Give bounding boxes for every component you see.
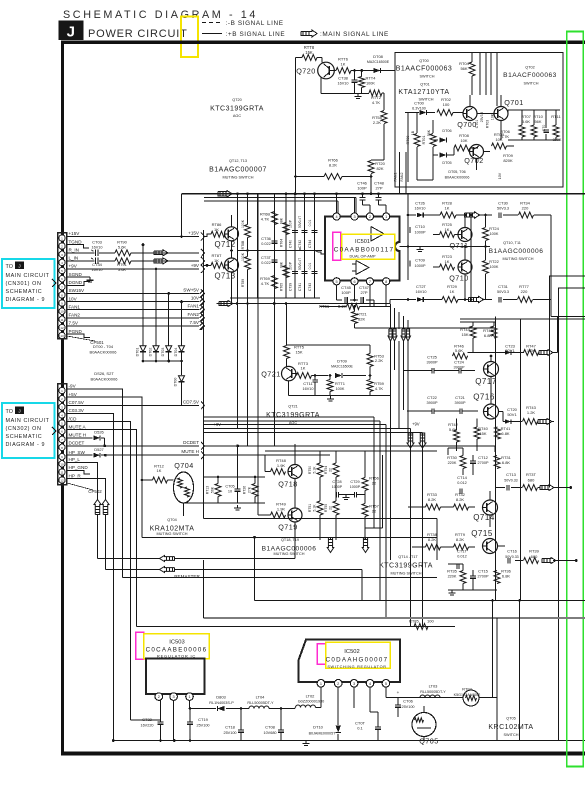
svg-text:D526: D526 (94, 430, 104, 435)
svg-text:CT39: CT39 (289, 283, 293, 291)
svg-text:3: 3 (353, 215, 355, 219)
svg-text:Q712: Q712 (214, 240, 235, 249)
svg-text:22: 22 (372, 509, 377, 514)
svg-text:Q713: Q713 (214, 272, 235, 281)
svg-text:FAN2: FAN2 (69, 313, 81, 318)
svg-text:SWITCH: SWITCH (524, 82, 539, 86)
svg-text:3900P: 3900P (455, 401, 466, 405)
svg-text:SWITCH: SWITCH (420, 75, 435, 79)
svg-text:J: J (18, 263, 20, 268)
svg-text:1K: 1K (445, 259, 450, 264)
svg-text:8.2K: 8.2K (428, 497, 437, 502)
svg-text:56K: 56K (534, 119, 541, 124)
svg-text:RT22: RT22 (489, 259, 499, 264)
svg-text:27P: 27P (375, 186, 382, 191)
svg-text:DUAL OP-AMP: DUAL OP-AMP (349, 255, 375, 259)
svg-text:KTC3199GRTA: KTC3199GRTA (379, 563, 433, 570)
svg-text:1K: 1K (445, 206, 450, 211)
svg-text:/CD: /CD (69, 416, 78, 421)
svg-text:REMASTER: REMASTER (174, 574, 200, 579)
svg-text:12: 12 (60, 479, 64, 483)
svg-text:SCHEMATIC: SCHEMATIC (6, 289, 43, 295)
svg-text:10V: 10V (498, 172, 502, 179)
svg-text:D803: D803 (216, 695, 226, 700)
svg-text:220: 220 (522, 206, 529, 211)
svg-text:25V3.3: 25V3.3 (480, 112, 484, 123)
svg-text:IC501: IC501 (355, 239, 370, 245)
svg-text:MUTE H: MUTE H (181, 449, 199, 454)
svg-text:RTT1: RTT1 (335, 381, 346, 386)
svg-text:1000P: 1000P (350, 485, 361, 489)
svg-text:10: 10 (60, 462, 64, 466)
svg-text:DIAGRAM - 9: DIAGRAM - 9 (6, 442, 46, 448)
svg-text:5.6K: 5.6K (118, 267, 127, 272)
svg-text:50V3.3: 50V3.3 (497, 207, 509, 211)
svg-text:C0AABB000117: C0AABB000117 (334, 247, 394, 254)
svg-text:100K: 100K (336, 387, 345, 391)
svg-text:8.2K: 8.2K (456, 497, 465, 502)
svg-text:11: 11 (60, 471, 63, 475)
svg-text:+9V: +9V (69, 264, 78, 269)
svg-text:100K: 100K (490, 265, 499, 269)
svg-text:CT43: CT43 (308, 283, 312, 291)
svg-text:Q702: Q702 (464, 156, 484, 165)
svg-text:0.022: 0.022 (261, 261, 271, 265)
svg-text:AGC: AGC (289, 421, 297, 425)
svg-text:0.012: 0.012 (457, 481, 467, 485)
svg-text:16V220: 16V220 (140, 724, 153, 728)
svg-text:3900P: 3900P (427, 401, 438, 405)
svg-text:1: 1 (188, 695, 190, 699)
svg-text:QT00: QT00 (419, 59, 429, 63)
svg-text:50V0.33: 50V0.33 (504, 479, 517, 483)
svg-text:680: 680 (528, 478, 535, 483)
svg-text:C0CAABE00006: C0CAABE00006 (146, 647, 208, 654)
svg-text:DCDET: DCDET (69, 441, 85, 446)
svg-text:CD7.5V: CD7.5V (183, 399, 200, 404)
svg-text:CT13: CT13 (506, 472, 517, 477)
svg-text:820K: 820K (503, 158, 513, 163)
svg-text:1000P: 1000P (415, 264, 426, 268)
svg-text:82K: 82K (358, 317, 365, 322)
svg-text:56K: 56K (211, 486, 215, 493)
svg-text:QT14 - T1T: QT14 - T1T (398, 555, 418, 559)
svg-text:CT44: CT44 (308, 240, 312, 248)
svg-text:C0DAAHG00007: C0DAAHG00007 (326, 657, 389, 664)
svg-text:+15V: +15V (188, 231, 200, 236)
svg-text:10K: 10K (491, 113, 495, 120)
svg-text:QT05: QT05 (506, 717, 516, 721)
svg-text:KTC3199GRTA: KTC3199GRTA (210, 106, 264, 113)
svg-text:100K: 100K (366, 82, 375, 86)
svg-text:FAN1: FAN1 (394, 173, 398, 182)
svg-text:1.2K: 1.2K (527, 410, 536, 415)
svg-text:CT25: CT25 (427, 355, 438, 360)
svg-text:MUTING SWITCH: MUTING SWITCH (502, 257, 533, 261)
svg-text:8: 8 (385, 280, 387, 284)
svg-text:6.3V100: 6.3V100 (412, 107, 426, 111)
svg-text:B0AACK00006: B0AACK00006 (445, 176, 470, 180)
svg-text:DT04: DT04 (174, 348, 178, 357)
svg-text:RT35: RT35 (447, 569, 457, 574)
svg-text:5: 5 (336, 280, 338, 284)
svg-text:4.7K: 4.7K (375, 386, 384, 391)
svg-text:Q701: Q701 (504, 98, 524, 107)
svg-text:IC502: IC502 (344, 649, 359, 655)
svg-text:0.1: 0.1 (357, 726, 363, 731)
svg-text:15K: 15K (461, 332, 468, 337)
svg-text:CT16: CT16 (507, 549, 518, 554)
svg-text:16V10: 16V10 (415, 207, 426, 211)
svg-text:CT1T: CT1T (457, 549, 468, 554)
svg-text:Q721: Q721 (261, 370, 281, 379)
svg-text:TO: TO (6, 264, 13, 270)
svg-text:Q705: Q705 (419, 737, 439, 746)
svg-text:7: 7 (369, 280, 371, 284)
svg-text:2: 2 (337, 682, 339, 686)
svg-text:R_IN: R_IN (69, 248, 79, 253)
svg-text:10K: 10K (460, 138, 467, 143)
svg-text:CT32: CT32 (142, 717, 153, 722)
svg-text:HP_SW: HP_SW (69, 450, 86, 455)
svg-text:7.5V: 7.5V (69, 321, 79, 326)
svg-text:RLL50005DT-Y: RLL50005DT-Y (247, 701, 274, 705)
svg-text:2: 2 (158, 695, 160, 699)
svg-text:J: J (67, 24, 76, 41)
svg-text:AGC: AGC (233, 114, 241, 118)
svg-text:1.9K: 1.9K (277, 463, 286, 468)
svg-text:Q704: Q704 (174, 461, 194, 470)
svg-text:6.8K: 6.8K (502, 460, 511, 465)
svg-text:2700P: 2700P (478, 461, 489, 465)
svg-text:15K: 15K (305, 50, 313, 55)
svg-text:J: J (18, 408, 20, 413)
svg-text:4.TK: 4.TK (261, 281, 270, 286)
svg-text:Q720: Q720 (296, 67, 316, 76)
svg-text:SWITCHING REGULATOR: SWITCHING REGULATOR (327, 665, 386, 669)
svg-text:10V: 10V (191, 296, 200, 301)
svg-text:16V10: 16V10 (416, 290, 427, 294)
svg-text:Q714: Q714 (473, 513, 495, 522)
svg-text:Q717: Q717 (475, 377, 497, 386)
svg-text:100K: 100K (241, 219, 245, 228)
svg-text:KRC102MTA: KRC102MTA (488, 724, 533, 731)
svg-text:4: 4 (369, 682, 371, 686)
svg-text:2.2K: 2.2K (375, 358, 384, 363)
svg-text:LT04: LT04 (256, 695, 266, 700)
svg-text:CT24: CT24 (454, 360, 465, 365)
svg-text:+9V: +9V (412, 422, 420, 427)
svg-text:CT21: CT21 (455, 395, 466, 400)
svg-text:CT29: CT29 (350, 480, 359, 484)
svg-text:MUTING SWITCH: MUTING SWITCH (390, 572, 421, 576)
svg-text:MA2C16500E: MA2C16500E (331, 365, 353, 369)
svg-text:RTT4: RTT4 (366, 76, 377, 81)
svg-text:8.2K: 8.2K (329, 163, 338, 168)
svg-text:DCDET: DCDET (183, 440, 199, 445)
svg-text:MUTING SWITCH: MUTING SWITCH (273, 552, 304, 556)
svg-text:RT26: RT26 (243, 486, 247, 495)
svg-text:27P: 27P (360, 290, 367, 295)
svg-text:10V: 10V (69, 296, 78, 301)
svg-text:B1AACF000063: B1AACF000063 (503, 72, 557, 79)
svg-text:1000P: 1000P (415, 231, 426, 235)
svg-text:CT11: CT11 (303, 381, 313, 386)
svg-text:100P: 100P (357, 186, 367, 191)
svg-text:CT26: CT26 (415, 201, 426, 206)
svg-text:DS26, S2T: DS26, S2T (94, 371, 114, 376)
svg-text:Q710: Q710 (449, 274, 469, 283)
svg-text:4: 4 (336, 215, 338, 219)
svg-text:CT19: CT19 (198, 717, 209, 722)
svg-text:POWER CIRCUIT: POWER CIRCUIT (88, 28, 188, 40)
svg-text:CT06: CT06 (403, 699, 414, 704)
svg-text:RL1N4003S-P: RL1N4003S-P (209, 701, 234, 705)
svg-text:1K: 1K (450, 289, 455, 294)
svg-text:Q700: Q700 (457, 120, 477, 129)
svg-text:RT50: RT50 (308, 466, 312, 474)
svg-text:RT54: RT54 (324, 466, 328, 474)
svg-text:CT30: CT30 (498, 201, 509, 206)
svg-text:RT55: RT55 (324, 504, 328, 512)
svg-text:2700P: 2700P (478, 575, 489, 579)
svg-text:MUTE A: MUTE A (69, 424, 87, 429)
svg-text:MA2C16500E: MA2C16500E (367, 60, 390, 64)
svg-text:1000P: 1000P (332, 485, 343, 489)
svg-text:SWITCH: SWITCH (504, 733, 519, 737)
svg-text:C03.3V: C03.3V (69, 408, 85, 413)
svg-text:0.012: 0.012 (457, 555, 467, 559)
svg-text:Q715: Q715 (471, 529, 493, 538)
svg-text:RT24: RT24 (489, 226, 499, 231)
svg-text:DT08: DT08 (373, 54, 384, 59)
svg-text:100P: 100P (289, 219, 293, 228)
svg-text:D527: D527 (94, 447, 104, 452)
svg-text:8.2K: 8.2K (428, 537, 437, 542)
svg-text:CT03: CT03 (92, 240, 103, 245)
svg-text:4.7K: 4.7K (372, 100, 381, 105)
svg-text:4.7K: 4.7K (501, 134, 510, 139)
svg-text:10V680: 10V680 (263, 731, 276, 735)
svg-text:CT22: CT22 (427, 395, 438, 400)
svg-text:SW15V: SW15V (69, 288, 86, 293)
svg-text:15K: 15K (295, 350, 302, 355)
svg-text:RT30: RT30 (447, 455, 457, 460)
svg-text:220K: 220K (448, 461, 457, 465)
svg-text:1: 1 (320, 682, 322, 686)
svg-text:DT05, T06: DT05, T06 (448, 170, 465, 174)
svg-text:(CN302) ON: (CN302) ON (6, 426, 42, 432)
svg-text:27K: 27K (248, 486, 252, 493)
svg-text:12: 12 (60, 326, 64, 330)
svg-text:RT89: RT89 (241, 279, 245, 287)
svg-text:RT3T: RT3T (526, 472, 536, 477)
svg-text:B1AAGC000006: B1AAGC000006 (489, 248, 544, 255)
svg-text:3: 3 (173, 695, 175, 699)
svg-text:13: 13 (60, 334, 64, 338)
svg-text:16V10: 16V10 (338, 82, 349, 86)
svg-text:L_IN: L_IN (69, 256, 79, 261)
svg-text:QT01: QT01 (420, 83, 430, 87)
svg-text:MAIN CIRCUIT: MAIN CIRCUIT (6, 273, 50, 279)
svg-text:SGND: SGND (69, 272, 83, 277)
svg-text:B1AAGC000007: B1AAGC000007 (209, 167, 267, 174)
svg-text:68K: 68K (280, 261, 284, 268)
svg-text:RT13: RT13 (206, 486, 210, 495)
svg-text:CT09: CT09 (415, 258, 426, 263)
svg-text:5: 5 (385, 682, 387, 686)
svg-text:50V0.33: 50V0.33 (505, 555, 518, 559)
svg-text:B1AACF000063: B1AACF000063 (396, 66, 453, 73)
svg-text:CT05: CT05 (225, 485, 234, 489)
svg-text:FAN2: FAN2 (400, 173, 404, 182)
svg-text:CT08: CT08 (265, 725, 276, 730)
svg-text:CT14: CT14 (457, 475, 468, 480)
svg-text:IC503: IC503 (169, 640, 184, 646)
svg-text:5.1K: 5.1K (313, 504, 317, 512)
svg-text:B0AACK00006: B0AACK00006 (90, 350, 118, 355)
svg-text:6.8K: 6.8K (502, 574, 511, 579)
svg-text:10: 10 (60, 310, 64, 314)
svg-text:CT31: CT31 (498, 284, 509, 289)
svg-text:QT12, T13: QT12, T13 (229, 159, 247, 163)
svg-text:CT28: CT28 (332, 480, 341, 484)
svg-text:DT06: DT06 (442, 129, 451, 133)
svg-text:MUTING SWITCH: MUTING SWITCH (222, 176, 253, 180)
svg-text:RT65: RT65 (280, 283, 284, 291)
svg-text:DT02: DT02 (149, 348, 153, 357)
svg-text:68K: 68K (280, 217, 284, 224)
svg-text:FAN1: FAN1 (69, 304, 81, 309)
svg-text:50V0.4T: 50V0.4T (298, 258, 302, 270)
svg-text:50V1: 50V1 (507, 412, 517, 417)
svg-text:1K: 1K (341, 62, 346, 67)
svg-text:DGND: DGND (69, 280, 83, 285)
svg-text:CT38: CT38 (338, 76, 349, 81)
svg-text:-9V: -9V (69, 384, 77, 389)
svg-text:CT01: CT01 (475, 120, 479, 129)
svg-text:HP_L: HP_L (69, 457, 81, 462)
svg-text:4.TK: 4.TK (261, 217, 270, 222)
svg-text:B0JAME00005T: B0JAME00005T (309, 731, 337, 735)
svg-text:82K: 82K (376, 166, 383, 171)
svg-text::-B SIGNAL LINE: :-B SIGNAL LINE (226, 20, 284, 27)
svg-text:25V100: 25V100 (196, 724, 209, 728)
svg-text:3900P: 3900P (427, 361, 438, 365)
svg-text:11: 11 (60, 318, 63, 322)
svg-text:1.9K: 1.9K (277, 507, 286, 512)
svg-text:10: 10 (228, 490, 232, 494)
svg-text:CT12: CT12 (478, 455, 489, 460)
svg-text:50V0.4T: 50V0.4T (298, 216, 302, 228)
svg-text:DT09: DT09 (337, 359, 348, 364)
svg-text:DT00: DT00 (174, 378, 178, 387)
svg-text:QT04: QT04 (167, 518, 177, 522)
svg-text:2.2K: 2.2K (373, 120, 382, 125)
svg-text:50V3.3: 50V3.3 (497, 290, 509, 294)
svg-text:CT18: CT18 (225, 725, 236, 730)
svg-text:RLL50005DT-Y: RLL50005DT-Y (420, 690, 446, 694)
svg-text:QT18, T19: QT18, T19 (281, 538, 299, 542)
svg-text::+B SIGNAL LINE: :+B SIGNAL LINE (226, 31, 286, 38)
svg-text:C07.5V: C07.5V (69, 400, 85, 405)
svg-text:+9V: +9V (191, 263, 200, 268)
svg-text:PGND: PGND (69, 329, 83, 334)
svg-text:25V100: 25V100 (401, 705, 414, 709)
svg-text:DT10: DT10 (313, 725, 324, 730)
svg-text:0.022: 0.022 (261, 242, 271, 246)
svg-text:QT02: QT02 (525, 66, 535, 70)
svg-text:8.2K: 8.2K (456, 537, 465, 542)
svg-text:DIAGRAM - 9: DIAGRAM - 9 (6, 297, 46, 303)
svg-text:100K: 100K (241, 252, 245, 261)
svg-text:B0AACK00006: B0AACK00006 (91, 377, 119, 382)
svg-text:100: 100 (427, 619, 434, 624)
svg-text:6.8K: 6.8K (501, 431, 510, 436)
svg-text:CT15: CT15 (478, 569, 489, 574)
svg-text:0.01: 0.01 (308, 220, 312, 227)
svg-text:+5V: +5V (69, 392, 78, 397)
svg-text:CT42: CT42 (298, 240, 302, 248)
svg-text:RT51: RT51 (308, 504, 312, 512)
svg-text:RT64: RT64 (280, 239, 284, 247)
svg-text:Q716: Q716 (473, 393, 495, 402)
svg-text:RT85: RT85 (409, 619, 419, 624)
svg-text:6: 6 (353, 280, 355, 284)
svg-text:5.1K: 5.1K (313, 466, 317, 474)
svg-text:15K: 15K (479, 431, 486, 436)
svg-text:SCHEMATIC: SCHEMATIC (6, 434, 43, 440)
svg-text:TO: TO (6, 409, 13, 415)
svg-text:56K: 56K (460, 66, 467, 71)
svg-text:100K: 100K (490, 232, 499, 236)
svg-text:FAN2: FAN2 (188, 312, 200, 317)
svg-text:QT20: QT20 (232, 98, 242, 102)
svg-text:+15V: +15V (69, 231, 81, 236)
svg-text:5.6K: 5.6K (455, 348, 464, 353)
svg-text:2: 2 (369, 215, 371, 219)
svg-text:MUTE H: MUTE H (69, 433, 87, 438)
svg-text:1K: 1K (301, 366, 306, 371)
svg-text:DT03: DT03 (161, 348, 165, 357)
svg-text:5.6K: 5.6K (522, 119, 531, 124)
svg-text:CT36: CT36 (261, 236, 272, 241)
svg-text:RT03: RT03 (486, 120, 490, 129)
svg-text:DT05: DT05 (442, 161, 451, 165)
svg-text:100P: 100P (289, 261, 293, 270)
svg-text:100P: 100P (341, 290, 351, 295)
svg-text:DT00 - T04: DT00 - T04 (93, 344, 114, 349)
svg-text:(CN301) ON: (CN301) ON (6, 281, 42, 287)
svg-text::MAIN SIGNAL LINE: :MAIN SIGNAL LINE (320, 31, 389, 38)
svg-text:FAN1: FAN1 (188, 304, 200, 309)
svg-text:220K: 220K (448, 575, 457, 579)
svg-text:RT8B: RT8B (241, 240, 245, 249)
svg-text:CT00: CT00 (414, 101, 425, 106)
svg-text:100: 100 (443, 102, 450, 107)
svg-text:1K: 1K (157, 468, 162, 473)
svg-text:KTA12710YTA: KTA12710YTA (398, 89, 449, 96)
svg-text:22: 22 (372, 481, 377, 486)
svg-text:G0ZZ00001930: G0ZZ00001930 (298, 700, 325, 704)
svg-text:0.01: 0.01 (308, 263, 312, 270)
svg-text:CT10: CT10 (415, 224, 426, 229)
svg-text:MAIN CIRCUIT: MAIN CIRCUIT (6, 418, 50, 424)
svg-text:LT02: LT02 (306, 694, 316, 699)
svg-text:RT39: RT39 (529, 549, 539, 554)
svg-text:CT40: CT40 (289, 240, 293, 248)
svg-text:CT41: CT41 (298, 283, 302, 291)
